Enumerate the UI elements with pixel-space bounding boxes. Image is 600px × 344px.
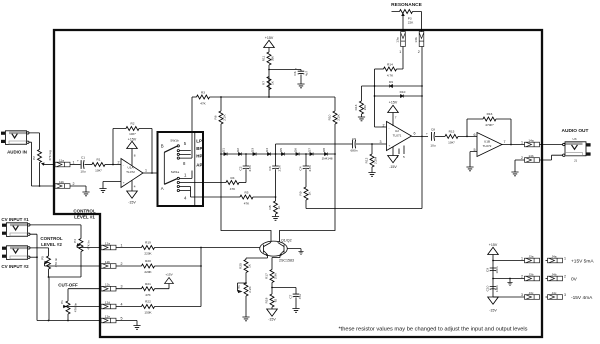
wire 12e to ground <box>116 321 137 326</box>
svg-text:J3b: J3b <box>529 272 534 276</box>
potentiometer P5 <box>41 256 101 278</box>
svg-text:D6: D6 <box>294 148 298 152</box>
junctions on feedback bus <box>421 85 423 87</box>
wire ground rail <box>37 320 101 322</box>
+15V supply arrow (R21) <box>165 273 174 284</box>
diode D2 <box>236 148 242 156</box>
svg-text:4: 4 <box>134 185 136 189</box>
svg-text:BP: BP <box>196 146 202 151</box>
svg-text:47K: 47K <box>200 102 206 106</box>
svg-text:+15V: +15V <box>165 273 173 277</box>
svg-text:R4: R4 <box>231 176 235 180</box>
connector J4b <box>546 272 567 281</box>
svg-text:CONTROL: CONTROL <box>73 209 95 214</box>
ground <box>297 84 304 88</box>
wire feedback rail to bus <box>306 47 422 209</box>
svg-text:1: 1 <box>564 257 566 261</box>
connector 14a <box>521 138 540 147</box>
diode D5 <box>279 148 285 156</box>
ground <box>292 309 299 313</box>
wire 11b to ground <box>70 186 86 192</box>
svg-text:C4: C4 <box>299 166 303 170</box>
svg-text:3: 3 <box>121 285 123 289</box>
ground <box>82 192 89 196</box>
junction <box>466 136 468 138</box>
+15V supply arrow U2 <box>388 101 399 127</box>
svg-text:CV INPUT #2: CV INPUT #2 <box>1 264 29 269</box>
connector 12e <box>101 314 123 323</box>
svg-text:C10: C10 <box>485 285 489 291</box>
wire Q2 base to ground <box>287 249 301 252</box>
ground <box>507 279 512 286</box>
connector J3b <box>521 272 540 281</box>
svg-text:7: 7 <box>504 140 506 144</box>
svg-text:47K: 47K <box>145 293 151 297</box>
diode D1 <box>222 148 228 156</box>
svg-text:4: 4 <box>121 303 123 307</box>
resistor R2 feedback <box>113 122 152 173</box>
svg-text:2SC1583: 2SC1583 <box>279 259 294 263</box>
svg-text:+: + <box>426 132 428 136</box>
capacitor C10 <box>485 285 499 292</box>
wire cv1 tip to P4 <box>30 225 81 239</box>
potentiometer P4 <box>49 239 101 321</box>
svg-text:Q1/Q2: Q1/Q2 <box>281 239 292 243</box>
svg-text:R11: R11 <box>262 56 266 62</box>
wire +15 row <box>493 260 525 262</box>
junction <box>220 96 222 98</box>
svg-text:R1: R1 <box>97 158 101 162</box>
ground <box>466 167 473 171</box>
svg-text:TL072: TL072 <box>483 144 492 148</box>
-15V supply arrow U2 <box>388 147 399 170</box>
connector 14b <box>521 154 540 163</box>
wire jack tip to P2 <box>29 133 40 150</box>
svg-text:2: 2 <box>118 161 120 165</box>
junction <box>271 287 273 289</box>
switch box SW1 <box>158 132 204 206</box>
junctions <box>492 260 494 262</box>
connector 12b <box>101 260 123 269</box>
svg-text:4u7: 4u7 <box>305 71 309 76</box>
svg-text:AUDIO OUT: AUDIO OUT <box>562 128 589 134</box>
resistor R1 <box>92 158 121 173</box>
resistor R14 <box>375 47 404 78</box>
resistor R16 feedback <box>467 112 511 145</box>
svg-text:LEVEL #2: LEVEL #2 <box>41 242 62 247</box>
capacitor C1 <box>77 156 92 174</box>
capacitor C9 <box>485 266 499 273</box>
svg-text:B: B <box>161 144 164 149</box>
wire mid-tap to C5 rail <box>276 144 353 154</box>
svg-text:+15V: +15V <box>389 101 398 105</box>
svg-text:CV INPUT #1: CV INPUT #1 <box>1 217 29 222</box>
svg-text:220K: 220K <box>144 270 152 274</box>
svg-text:82: 82 <box>274 299 278 303</box>
svg-text:P5: P5 <box>41 256 45 260</box>
svg-text:R15: R15 <box>449 130 455 134</box>
svg-text:4.7K: 4.7K <box>387 74 394 78</box>
resistor R5 <box>203 191 276 206</box>
svg-text:3: 3 <box>521 293 523 297</box>
svg-text:C9: C9 <box>485 268 489 272</box>
wire chain left end to Q1 collector <box>221 154 271 242</box>
+15V supply arrow U1a <box>127 137 138 165</box>
capacitor C7 <box>289 294 302 309</box>
svg-text:SW1a: SW1a <box>171 170 180 174</box>
svg-text:R8: R8 <box>268 205 272 209</box>
svg-text:+: + <box>295 67 297 71</box>
svg-text:12a: 12a <box>105 241 110 245</box>
resistor R12 <box>365 144 378 173</box>
resistor R6 <box>214 97 227 154</box>
svg-text:J1: J1 <box>574 159 578 163</box>
wire bias rail <box>210 96 336 98</box>
svg-text:2.2K: 2.2K <box>337 113 341 120</box>
connector J4a <box>546 254 567 263</box>
svg-text:D2: D2 <box>236 148 240 152</box>
svg-text:-: - <box>123 163 124 167</box>
wire U1a pin3 to ground <box>103 182 121 189</box>
wire <box>268 65 270 97</box>
svg-text:13b: 13b <box>414 37 418 42</box>
svg-text:3.9K: 3.9K <box>274 272 278 279</box>
svg-text:2.2M: 2.2M <box>374 157 378 164</box>
resistor R13 <box>354 86 367 117</box>
svg-text:1: 1 <box>521 141 523 145</box>
svg-text:470K*: 470K* <box>485 123 494 127</box>
svg-text:+: + <box>77 159 79 163</box>
ground <box>133 326 140 330</box>
resistor R4 <box>203 176 246 191</box>
wire R14 left down to U2 pin2 <box>375 69 387 127</box>
connector 12a <box>101 241 123 250</box>
svg-text:R14: R14 <box>387 63 393 67</box>
main board border <box>54 30 542 337</box>
svg-text:R22: R22 <box>145 300 151 304</box>
svg-text:C2: C2 <box>239 166 243 170</box>
node junction <box>268 69 270 71</box>
svg-text:2.2K: 2.2K <box>248 285 252 292</box>
svg-text:220K: 220K <box>144 252 152 256</box>
svg-text:J3a: J3a <box>529 254 534 258</box>
svg-text:C1: C1 <box>81 156 85 160</box>
ground <box>272 217 279 221</box>
wire Q1 emitter to R25 <box>246 258 268 260</box>
resistor R3 <box>192 91 210 106</box>
svg-text:47K lin: 47K lin <box>87 240 91 250</box>
svg-text:2: 2 <box>521 275 523 279</box>
svg-text:R13: R13 <box>354 104 358 110</box>
svg-text:2: 2 <box>73 182 75 186</box>
svg-text:47K: 47K <box>244 202 250 206</box>
svg-text:5: 5 <box>403 155 405 159</box>
svg-text:5: 5 <box>121 317 123 321</box>
svg-text:10K*: 10K* <box>129 132 137 136</box>
svg-text:2: 2 <box>564 275 566 279</box>
junction <box>371 143 373 145</box>
svg-text:+: + <box>389 144 391 148</box>
svg-text:1: 1 <box>73 161 75 165</box>
resistor R18 <box>265 294 278 309</box>
junctions on chain <box>220 153 222 155</box>
svg-text:R6: R6 <box>214 115 218 119</box>
svg-text:P2: P2 <box>32 156 36 160</box>
wire U1b pin5 to ground <box>470 152 477 167</box>
wire R3 to switch <box>191 97 193 158</box>
svg-text:10u: 10u <box>80 170 85 174</box>
svg-text:R17: R17 <box>265 273 269 279</box>
ground <box>298 252 303 255</box>
svg-text:R18: R18 <box>265 297 269 303</box>
svg-text:-15V: -15V <box>128 201 136 205</box>
svg-text:SW1b: SW1b <box>170 138 179 142</box>
junction <box>275 196 277 198</box>
svg-text:47K lin: 47K lin <box>74 302 78 312</box>
wire -15 row <box>493 296 525 298</box>
wire cutoff top row <box>68 289 101 301</box>
svg-text:CONTROL: CONTROL <box>40 236 62 241</box>
svg-text:2.2n: 2.2n <box>248 165 252 171</box>
op-amp U1A TL072 <box>118 159 148 188</box>
svg-text:J4b: J4b <box>552 272 557 276</box>
wire <box>421 12 423 32</box>
capacitor C6 <box>293 67 309 85</box>
diode D4 <box>265 148 271 156</box>
svg-text:C6: C6 <box>293 71 297 75</box>
svg-text:TL072: TL072 <box>126 170 135 174</box>
svg-text:*these resistor values may be: *these resistor values may be changed to… <box>338 327 527 333</box>
connector J4c <box>546 291 567 300</box>
potentiometer P1 <box>60 300 101 321</box>
wire divider <box>194 132 196 206</box>
svg-text:10K*: 10K* <box>448 141 456 145</box>
svg-text:TL071: TL071 <box>393 134 402 138</box>
resistor R17 <box>265 270 278 295</box>
svg-text:U3: U3 <box>573 137 577 141</box>
svg-text:-15V: -15V <box>389 165 397 169</box>
svg-text:-15V: -15V <box>268 318 276 322</box>
resistor R25 <box>239 260 252 284</box>
svg-text:390: 390 <box>271 56 275 61</box>
diode D9 clip line <box>362 80 423 88</box>
connector 11a <box>55 158 75 167</box>
svg-text:C5: C5 <box>352 137 356 141</box>
svg-text:2.2K: 2.2K <box>223 113 227 120</box>
svg-text:2: 2 <box>383 124 385 128</box>
svg-text:7: 7 <box>395 116 397 120</box>
wire 11a to C1 <box>70 164 81 166</box>
svg-text:2: 2 <box>121 262 123 266</box>
svg-text:D4: D4 <box>265 148 269 152</box>
wire U1a output to switch <box>143 172 158 174</box>
svg-text:R25: R25 <box>239 263 243 269</box>
connector J6 cv input 1 jack <box>2 223 30 237</box>
svg-text:+15V 5mA: +15V 5mA <box>571 259 594 265</box>
svg-text:2.2n: 2.2n <box>278 165 282 171</box>
svg-text:J3c: J3c <box>529 291 534 295</box>
resistor R7 <box>262 77 275 98</box>
svg-text:D9: D9 <box>389 80 393 84</box>
svg-text:0V: 0V <box>571 277 578 283</box>
svg-text:13a: 13a <box>396 37 400 42</box>
svg-text:14b: 14b <box>528 154 533 158</box>
diode D3 <box>251 148 257 156</box>
svg-text:R7: R7 <box>262 81 266 85</box>
+15V supply arrow (power header) <box>488 243 499 297</box>
wire <box>269 70 301 72</box>
svg-text:D5: D5 <box>279 148 283 152</box>
svg-text:R19: R19 <box>145 241 151 245</box>
svg-text:A: A <box>161 186 164 191</box>
svg-text:47u: 47u <box>298 294 302 299</box>
svg-text:D1: D1 <box>222 148 226 152</box>
connector J3c <box>521 291 540 300</box>
connector J3a <box>521 254 540 263</box>
svg-text:R2: R2 <box>131 122 135 126</box>
svg-text:100n: 100n <box>495 285 499 292</box>
svg-text:J4c: J4c <box>552 291 557 295</box>
svg-text:+15V: +15V <box>265 36 274 40</box>
resistor R11 <box>262 52 275 65</box>
wire cv2 tip to P5 <box>30 248 49 256</box>
ground <box>358 117 365 121</box>
potentiometer P3 <box>392 10 422 32</box>
switch SW1a <box>161 170 203 201</box>
svg-text:HP: HP <box>196 153 202 158</box>
resistor R15 <box>445 130 477 145</box>
svg-text:10u: 10u <box>430 144 435 148</box>
ground <box>99 189 106 193</box>
connector 11b <box>55 180 75 189</box>
resistor R8 <box>268 197 281 217</box>
svg-text:680n: 680n <box>351 149 358 153</box>
svg-text:U2: U2 <box>395 129 399 133</box>
switch SW1b <box>161 138 192 184</box>
connector 12d <box>101 300 123 309</box>
wire jack sleeve down <box>29 142 55 186</box>
wire 0V row <box>493 278 525 280</box>
capacitor C8 <box>426 128 445 148</box>
connector 13a <box>396 32 406 55</box>
connector J2 audio out jack <box>563 137 591 163</box>
svg-text:U1B: U1B <box>484 140 490 144</box>
wire U2 output <box>412 135 429 137</box>
svg-text:3: 3 <box>564 293 566 297</box>
svg-text:100n: 100n <box>495 266 499 273</box>
svg-text:-15V: -15V <box>489 309 497 313</box>
svg-text:D8: D8 <box>322 148 326 152</box>
svg-text:LP: LP <box>196 139 202 144</box>
wire 14b to ground <box>515 160 525 172</box>
svg-text:11b: 11b <box>59 180 64 184</box>
wire diode chain row <box>221 153 335 155</box>
svg-text:1N4148: 1N4148 <box>322 157 333 161</box>
capacitor C4 <box>299 154 313 187</box>
svg-text:P1: P1 <box>60 300 64 304</box>
capacitor C5 <box>351 137 387 153</box>
svg-text:AP: AP <box>196 162 202 167</box>
svg-text:+15V: +15V <box>489 243 498 247</box>
ground <box>368 173 375 177</box>
svg-text:R10: R10 <box>328 114 332 120</box>
svg-text:R20: R20 <box>145 259 151 263</box>
ground <box>511 172 518 176</box>
svg-text:3: 3 <box>380 140 382 144</box>
resistor R10 <box>328 97 341 154</box>
svg-text:22K: 22K <box>408 21 414 25</box>
svg-text:RESONANCE: RESONANCE <box>391 2 422 8</box>
svg-text:C7: C7 <box>289 294 293 298</box>
wire to C7 <box>272 288 296 295</box>
wire cv1 sleeve <box>30 234 37 320</box>
svg-text:12c: 12c <box>105 283 110 287</box>
svg-text:12e: 12e <box>105 314 110 318</box>
svg-text:R21: R21 <box>145 282 151 286</box>
svg-text:C8: C8 <box>431 128 435 132</box>
+15V supply arrow (bias) <box>264 36 275 52</box>
svg-text:C3: C3 <box>268 166 272 170</box>
wire 14b to jack sleeve <box>540 155 563 160</box>
resistor R20 <box>116 259 201 274</box>
wire chain right end to Q2 collector <box>280 154 336 242</box>
connector 12c <box>101 283 123 292</box>
svg-text:47K log: 47K log <box>48 150 52 161</box>
svg-text:12b: 12b <box>105 260 110 264</box>
svg-text:-15V 4mA: -15V 4mA <box>571 295 593 301</box>
svg-text:T1: T1 <box>237 285 241 289</box>
wire cv2 sleeve <box>30 256 37 258</box>
-15V supply arrow <box>267 309 278 322</box>
wire U1b output <box>502 144 525 146</box>
ground <box>242 317 249 321</box>
svg-text:14a: 14a <box>528 138 533 142</box>
svg-text:12d: 12d <box>105 300 110 304</box>
capacitor C3 <box>268 154 282 197</box>
-15V supply arrow U1a <box>127 181 138 205</box>
svg-text:U1A: U1A <box>127 166 134 170</box>
svg-text:1: 1 <box>399 50 401 54</box>
svg-text:LEVEL #1: LEVEL #1 <box>74 215 95 220</box>
wire Q2 emitter to R17 <box>272 258 280 270</box>
connector J7 cv input 2 jack <box>2 246 30 260</box>
svg-text:J4a: J4a <box>552 254 557 258</box>
resistor R21 <box>116 282 169 297</box>
svg-text:+15V: +15V <box>128 137 137 141</box>
svg-text:R9: R9 <box>299 191 303 195</box>
svg-text:D10: D10 <box>400 90 406 94</box>
svg-text:P4: P4 <box>73 239 77 243</box>
op-amp U2 TL071 <box>383 122 416 160</box>
svg-text:R16: R16 <box>487 112 493 116</box>
resistor R22 <box>116 300 201 315</box>
svg-text:R3: R3 <box>201 91 205 95</box>
svg-text:R5: R5 <box>245 191 249 195</box>
svg-text:47K: 47K <box>230 187 236 191</box>
svg-text:6: 6 <box>474 133 476 137</box>
diode D6 <box>294 148 300 156</box>
svg-text:8: 8 <box>134 154 136 158</box>
svg-text:2: 2 <box>418 50 420 54</box>
svg-text:2.2n: 2.2n <box>308 165 312 171</box>
svg-text:-: - <box>389 126 390 130</box>
op-amp U1B TL072 <box>474 133 506 157</box>
svg-text:1: 1 <box>145 168 147 172</box>
-15V supply arrow (power header) <box>488 297 499 313</box>
wire to audio out <box>540 144 563 146</box>
resistor R19 <box>116 241 260 256</box>
diode D8 <box>322 148 328 156</box>
